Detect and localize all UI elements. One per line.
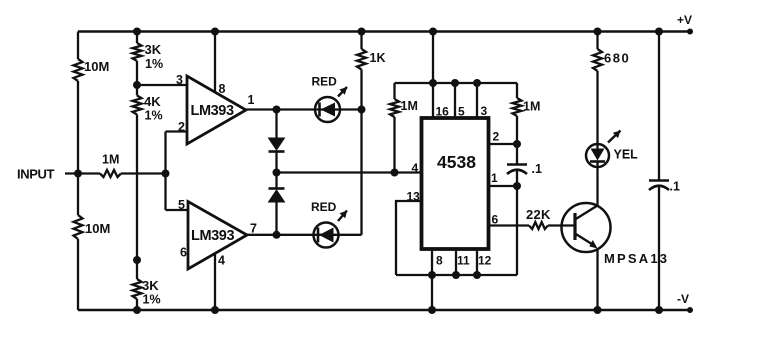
wire: pin 2 stub xyxy=(489,143,518,145)
node: LED/1K junction xyxy=(358,106,366,114)
node: comparator input node xyxy=(162,170,170,178)
node: bottom rail dot at right cap xyxy=(655,306,663,314)
node: bus dot pin11 xyxy=(452,271,460,279)
LED D5 YEL xyxy=(586,144,609,167)
svg-text:3: 3 xyxy=(176,73,183,87)
svg-text:RED: RED xyxy=(312,75,338,89)
node: rail dot at right cap top xyxy=(655,28,663,36)
node: bus dot pin16 xyxy=(429,79,437,87)
wire: diode column mid segment xyxy=(275,152,277,189)
node: bus dot pin8 xyxy=(428,271,436,279)
svg-text:5: 5 xyxy=(178,198,185,212)
svg-text:8: 8 xyxy=(436,254,443,268)
node: pin2 junction xyxy=(513,140,521,148)
svg-text:1%: 1% xyxy=(145,109,163,123)
wire: top +V rail xyxy=(78,30,690,33)
svg-text:3: 3 xyxy=(481,104,488,118)
diode D1 (cathode down) xyxy=(269,138,285,150)
wire: pin 6 to 22K xyxy=(489,224,530,226)
svg-text:4: 4 xyxy=(218,254,225,268)
svg-text:680: 680 xyxy=(604,51,630,66)
wire: 680 to +V rail xyxy=(596,32,598,50)
node: pin1 junction xyxy=(513,182,521,190)
node: bottom rail dot at divider xyxy=(133,306,141,314)
svg-text:1K: 1K xyxy=(370,51,386,65)
svg-text:7: 7 xyxy=(250,222,257,236)
resistor 4K 1% xyxy=(133,96,142,115)
wire: INPUT lead xyxy=(65,172,100,174)
resistor 1M right of 4538 xyxy=(516,83,518,98)
svg-text:10M: 10M xyxy=(85,221,110,236)
arrow: RED upper emission xyxy=(338,87,347,97)
svg-text:4: 4 xyxy=(412,161,419,175)
resistor R-in 1M xyxy=(100,170,121,177)
node: pin6 tap junction xyxy=(133,256,141,264)
resistor 22K xyxy=(529,222,548,229)
wire: pin3 drop xyxy=(476,83,478,118)
resistor 1M left of 4538 xyxy=(393,83,395,99)
wire: 22K to base xyxy=(548,224,575,226)
svg-text:1: 1 xyxy=(248,93,255,107)
wire: pin16 drop xyxy=(432,83,434,118)
resistor 680 xyxy=(593,49,602,71)
svg-text:2: 2 xyxy=(493,130,500,144)
svg-text:22K: 22K xyxy=(526,207,551,222)
node: bus dot pin3 xyxy=(473,79,481,87)
LED D3 RED upper xyxy=(315,97,340,122)
svg-text:1M: 1M xyxy=(523,100,540,114)
wire: collector to LED xyxy=(596,162,598,206)
wire: pin12 drop xyxy=(476,249,478,275)
wire: diode column upper segment xyxy=(275,110,277,139)
svg-text:LM393: LM393 xyxy=(191,103,234,119)
arrow: YEL emission xyxy=(608,131,621,143)
wire: pin11 drop xyxy=(455,249,457,275)
node: input junction on left column xyxy=(74,170,82,178)
wire: right cap column top xyxy=(658,32,660,181)
wire: pin 5 horizontal xyxy=(166,209,189,211)
svg-text:4K: 4K xyxy=(144,94,161,109)
op-amp U2 LM393 lower triangle xyxy=(188,202,247,270)
LED D4 RED lower xyxy=(314,223,339,248)
svg-text:YEL: YEL xyxy=(614,148,639,162)
node: rail dot at divider xyxy=(133,28,141,36)
svg-text:1M: 1M xyxy=(102,153,119,167)
svg-text:INPUT: INPUT xyxy=(17,167,54,182)
wire: pin 3 horizontal xyxy=(137,84,187,86)
svg-text:8: 8 xyxy=(219,82,226,96)
IC U3 4538 body xyxy=(422,118,489,249)
wire: +V drop to top bus xyxy=(432,32,434,84)
svg-text:1%: 1% xyxy=(143,293,161,307)
wire: input node vertical to pin2/pin5 xyxy=(164,132,166,211)
resistor 3K 1% bottom xyxy=(133,279,142,299)
wire: 4538 bottom bus xyxy=(396,274,517,276)
node: diode column top junction xyxy=(273,106,281,114)
wire: input to node xyxy=(121,172,166,174)
op-amp U1 LM393 upper triangle xyxy=(187,76,246,144)
svg-text:3K: 3K xyxy=(142,278,159,293)
node: -V terminal dot xyxy=(687,307,693,313)
svg-text:.1: .1 xyxy=(532,162,542,176)
wire: diode column bottom segment xyxy=(275,202,277,235)
node: rail dot at pin8 xyxy=(211,28,219,36)
wire: U1 output xyxy=(246,108,362,110)
svg-text:4538: 4538 xyxy=(437,152,476,172)
node: bottom rail dot at pin4 xyxy=(211,306,219,314)
wire: pin8 drop xyxy=(431,249,433,275)
svg-text:6: 6 xyxy=(180,246,187,260)
node: bottom rail dot at 4538 xyxy=(428,306,436,314)
node: rail dot at 680 xyxy=(594,28,602,36)
svg-text:1%: 1% xyxy=(145,57,163,71)
svg-text:6: 6 xyxy=(492,213,499,227)
wire: pin 13 route xyxy=(396,201,422,275)
wire: 1K column top xyxy=(360,32,362,50)
transistor Q1 MPSA13 xyxy=(562,203,611,252)
node: bus dot pin12 xyxy=(473,271,481,279)
svg-text:RED: RED xyxy=(311,200,337,214)
node: diode column bottom junction xyxy=(273,231,281,239)
diode D2 (cathode up) xyxy=(269,187,285,190)
wire: bottom -V rail xyxy=(78,309,690,312)
arrow: RED lower emission xyxy=(338,211,347,222)
resistor 10M upper xyxy=(74,59,83,81)
node: rail dot at 4538 supply drop xyxy=(429,28,437,36)
svg-text:10M: 10M xyxy=(84,59,109,74)
wire: 4538 top bus xyxy=(395,82,518,84)
svg-text:LM393: LM393 xyxy=(191,228,234,244)
wire: divider column segments xyxy=(136,32,138,44)
wire: 1K to LED junction and down to lower LED xyxy=(360,70,362,235)
svg-text:12: 12 xyxy=(478,254,492,268)
svg-text:1M: 1M xyxy=(401,99,418,113)
node: diode mid junction xyxy=(273,169,281,177)
node: pin3 tap junction xyxy=(133,81,141,89)
capacitor C2 .1 supply xyxy=(649,179,669,182)
resistor 3K 1% top xyxy=(133,43,142,61)
wire: diode mid to 4538 pin 4 xyxy=(277,171,422,173)
wire: pin 8 to +V rail xyxy=(214,32,216,93)
svg-text:3K: 3K xyxy=(145,42,162,57)
wire: right cap column bottom xyxy=(658,186,660,310)
wire: U2 output xyxy=(247,234,362,236)
node: rail dot at 1K xyxy=(358,28,366,36)
svg-text:.1: .1 xyxy=(670,180,680,194)
svg-text:2: 2 xyxy=(178,120,185,134)
wire: left column segments xyxy=(77,32,79,60)
wire: cap to pin1 junction and down to bus xyxy=(516,170,518,275)
wire: LED to 680 xyxy=(596,71,598,149)
wire: pin 4 to -V rail xyxy=(214,253,216,310)
node: pin4 wire / 1M junction xyxy=(391,169,399,177)
resistor 1K xyxy=(357,49,366,70)
svg-text:11: 11 xyxy=(457,254,470,268)
wire: bus to -V rail xyxy=(431,275,433,310)
svg-text:+V: +V xyxy=(677,13,692,27)
wire: pin5 drop xyxy=(454,83,456,118)
wire: pin 2 horizontal xyxy=(166,130,188,132)
svg-text:1: 1 xyxy=(491,171,498,185)
wire: pin 1 stub xyxy=(489,185,518,187)
capacitor C1 .1 timing xyxy=(507,163,527,166)
svg-text:-V: -V xyxy=(677,292,689,306)
wire: emitter to -V rail xyxy=(596,249,598,311)
resistor 10M lower xyxy=(74,215,83,239)
node: bottom rail dot at emitter xyxy=(594,306,602,314)
svg-text:13: 13 xyxy=(407,190,421,204)
node: bus dot pin5 xyxy=(451,79,459,87)
node: +V terminal dot xyxy=(687,29,693,35)
